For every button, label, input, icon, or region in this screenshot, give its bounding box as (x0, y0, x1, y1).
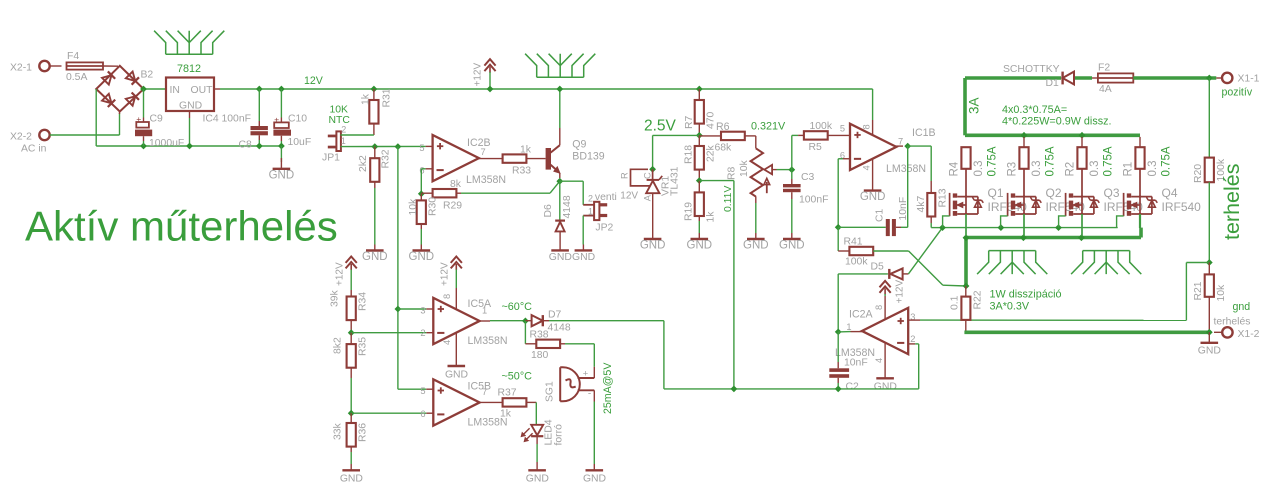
svg-text:1k: 1k (361, 93, 372, 105)
svg-text:IRF540: IRF540 (1162, 200, 1202, 214)
svg-text:2: 2 (910, 334, 915, 344)
svg-text:100k: 100k (810, 121, 833, 132)
svg-text:4*0.225W=0.9W dissz.: 4*0.225W=0.9W dissz. (1002, 116, 1112, 128)
svg-text:0.11V: 0.11V (723, 186, 734, 212)
buzzer SG1 (593, 367, 595, 378)
svg-text:4: 4 (862, 165, 872, 170)
svg-text:C: C (643, 172, 653, 179)
svg-text:0.75A: 0.75A (1103, 146, 1115, 176)
heatsink for IC4 (154, 31, 224, 55)
shunt reference VR1 TL431 (649, 166, 656, 173)
resistor R22 0.1 current sense (964, 239, 968, 286)
svg-text:pozitív: pozitív (1222, 87, 1253, 99)
svg-text:1: 1 (846, 322, 851, 332)
svg-text:0.75A: 0.75A (987, 146, 999, 176)
ground symbol under C3 (783, 238, 801, 240)
svg-text:R30: R30 (428, 197, 439, 216)
ground symbol under R19 (691, 238, 709, 240)
svg-text:10k: 10k (1216, 284, 1227, 302)
node R35 R36 junction (348, 410, 355, 417)
wire IC1B output node (895, 145, 903, 147)
svg-text:33k: 33k (333, 422, 344, 440)
wire R38 to buzzer (593, 344, 595, 367)
mosfet Q1 IRF540 (949, 193, 951, 216)
svg-text:X1-2: X1-2 (1238, 329, 1260, 340)
svg-text:+12V: +12V (440, 262, 451, 286)
fuse F2 4A (1098, 73, 1133, 82)
svg-text:4: 4 (874, 358, 884, 363)
svg-text:5: 5 (420, 386, 425, 396)
svg-text:0.1: 0.1 (950, 295, 961, 310)
svg-text:+: + (583, 369, 588, 379)
svg-text:4148: 4148 (562, 195, 573, 218)
terminal X2-2 (39, 130, 49, 140)
svg-text:4: 4 (442, 340, 452, 345)
svg-text:D7: D7 (548, 310, 562, 321)
bridge diode bottom-right (126, 93, 139, 106)
svg-text:2k2: 2k2 (358, 155, 369, 172)
svg-text:5: 5 (419, 143, 424, 153)
terminal X1-1 (1222, 73, 1232, 83)
svg-text:F4: F4 (67, 51, 79, 62)
capacitor C2 10nF (837, 332, 839, 362)
node 2.5V junction (696, 132, 703, 139)
resistor R34 39k (347, 297, 356, 321)
svg-text:3A: 3A (967, 97, 982, 114)
svg-text:1W disszipáció: 1W disszipáció (990, 289, 1062, 301)
led LED4 (531, 425, 543, 435)
svg-text:GND: GND (362, 251, 388, 263)
svg-text:10uF: 10uF (288, 137, 312, 148)
svg-text:IN: IN (170, 85, 180, 96)
svg-text:C2: C2 (846, 382, 860, 393)
svg-text:Q9: Q9 (572, 139, 586, 151)
wire R29 to Q9 emitter (461, 192, 550, 194)
ground symbol under R30 (420, 245, 422, 251)
resistor R3 0.3 (1023, 137, 1025, 147)
wire sense bypass to R21 top (1186, 262, 1209, 264)
wire NTC net to IC5B +in (398, 388, 426, 390)
svg-text:10nF: 10nF (844, 358, 868, 369)
resistor R29 8k (421, 192, 432, 194)
svg-text:8: 8 (874, 305, 884, 310)
svg-text:1k: 1k (500, 409, 512, 420)
svg-text:GND: GND (409, 251, 435, 263)
svg-text:GND: GND (179, 101, 202, 112)
svg-text:R34: R34 (358, 292, 369, 311)
svg-text:R7: R7 (684, 115, 695, 129)
svg-text:GND: GND (687, 240, 713, 252)
wire IC4 GND pin (189, 111, 191, 118)
capacitor C8 100nF (256, 86, 263, 93)
svg-text:3A*0.3V: 3A*0.3V (990, 301, 1030, 313)
svg-text:10k: 10k (739, 159, 750, 177)
svg-text:+12V: +12V (895, 280, 906, 304)
resistor R35 8k2 (350, 333, 352, 344)
svg-text:2: 2 (420, 328, 425, 338)
resistor R20 100k (1205, 158, 1214, 183)
terminal X1-2 (1222, 327, 1232, 337)
svg-text:TL431: TL431 (670, 166, 681, 196)
heatsink for Q3 Q4 (1071, 251, 1141, 275)
wire IC5A output (480, 320, 490, 322)
resistor R13 4k7 (927, 193, 935, 217)
ground symbol under C10 (280, 146, 282, 162)
resistor R37 1k (503, 398, 527, 406)
svg-text:25mA@5V: 25mA@5V (602, 362, 614, 414)
wire JP1 pin1 net NTC node (341, 145, 426, 147)
svg-text:+12V: +12V (473, 63, 484, 87)
wire divider to IC5A -in (351, 332, 426, 334)
wire IC1B -in pin6 (843, 158, 850, 160)
mosfet Q3 IRF540 (1065, 193, 1067, 216)
terminal X2-1 (39, 61, 49, 71)
wire IC5B output (480, 401, 503, 403)
svg-text:IC2A: IC2A (849, 309, 873, 321)
wire IC2B -in net (426, 168, 433, 170)
ground symbol under R32 (374, 245, 376, 251)
wire F4 to bridge (103, 65, 118, 67)
op-amp IC1B (850, 124, 896, 170)
svg-text:2: 2 (588, 194, 593, 204)
ground symbol under LED4 (528, 469, 546, 471)
trimmer R8 10k (751, 148, 763, 196)
ground symbol under IC2A (876, 377, 894, 379)
mosfet Q2 IRF540 (1007, 193, 1009, 216)
svg-text:OUT: OUT (191, 85, 214, 96)
fuse F4 (67, 62, 104, 69)
resistor R5 100k (798, 134, 804, 136)
wire 2.5V net to VR1 (653, 134, 700, 136)
svg-text:1: 1 (588, 206, 593, 216)
ground symbol under X1-2 (1208, 332, 1210, 342)
svg-text:IC1B: IC1B (912, 127, 936, 139)
capacitor C9 1000uF (143, 89, 145, 118)
svg-text:Aktív műterhelés: Aktív műterhelés (25, 203, 338, 250)
svg-text:7: 7 (898, 137, 903, 147)
svg-text:R36: R36 (358, 423, 369, 442)
svg-text:7: 7 (481, 147, 486, 157)
svg-text:C10: C10 (288, 114, 307, 125)
wire IC2A output node (851, 331, 862, 333)
svg-text:10K: 10K (330, 105, 349, 116)
wire R20 to R21 node (1208, 182, 1210, 262)
node IN junction (140, 86, 147, 93)
svg-text:1k: 1k (520, 145, 532, 156)
resistor R31 1k (371, 86, 378, 93)
wire bridge to 7812 IN (144, 88, 166, 90)
svg-text:39k: 39k (330, 289, 341, 307)
svg-text:4148: 4148 (548, 323, 571, 334)
svg-text:GND: GND (583, 474, 606, 485)
bridge rectifier B2 (96, 66, 143, 112)
svg-text:4A: 4A (1099, 84, 1112, 95)
svg-text:R18: R18 (684, 145, 695, 164)
supply +12V arrow R34 (346, 257, 357, 263)
resistor R33 1k (503, 154, 527, 162)
svg-text:IC5B: IC5B (468, 381, 492, 393)
svg-text:SG1: SG1 (545, 381, 556, 402)
wire X1-1 to R20 (1208, 78, 1210, 158)
wire IC2A +in pin3 sense line (908, 319, 920, 321)
svg-text:100k: 100k (845, 257, 868, 268)
svg-text:R13: R13 (938, 188, 949, 207)
svg-text:F2: F2 (1098, 63, 1110, 74)
svg-text:C9: C9 (150, 114, 164, 125)
svg-text:JP2: JP2 (595, 222, 613, 233)
svg-text:gnd: gnd (1233, 301, 1251, 313)
12V rail from IC4 OUT (214, 88, 220, 90)
svg-text:terhelés: terhelés (1214, 317, 1251, 328)
wire IC2B output (479, 158, 503, 160)
op-amp IC5B (433, 379, 479, 425)
svg-text:+: + (274, 114, 279, 124)
wire R8 bottom to ground (755, 196, 757, 203)
svg-text:A: A (642, 194, 652, 201)
svg-text:GND: GND (340, 474, 363, 485)
svg-text:GND: GND (526, 474, 549, 485)
svg-text:0.3: 0.3 (973, 161, 985, 177)
capacitor C10 10uF (278, 86, 285, 93)
svg-text:R4: R4 (949, 161, 961, 176)
wire Q4 source (1139, 214, 1141, 228)
svg-text:B2: B2 (141, 70, 154, 81)
voltage regulator IC4 7812 (166, 78, 214, 112)
op-amp IC5A (433, 298, 479, 344)
svg-text:BD139: BD139 (572, 151, 604, 163)
svg-text:R32: R32 (381, 149, 392, 168)
resistor R6 68k (699, 135, 721, 137)
svg-text:1000uF: 1000uF (149, 138, 184, 149)
svg-text:R20: R20 (1193, 164, 1204, 183)
svg-text:GND: GND (445, 370, 468, 381)
ground symbol under VR1 (644, 238, 662, 240)
wire D5 to gate bus diagonal (908, 228, 942, 274)
wire NTC net down to IC5 (397, 147, 399, 390)
svg-text:10k: 10k (408, 198, 419, 216)
svg-text:X2-1: X2-1 (10, 63, 32, 74)
svg-text:forró: forró (554, 424, 565, 446)
ground symbol under R36 (342, 469, 360, 471)
wire buzzer minus to ground (593, 390, 595, 401)
op-amp IC2A (862, 308, 908, 354)
heatsink for Q1 Q2 (977, 251, 1047, 275)
svg-text:0.321V: 0.321V (751, 121, 786, 133)
wire Q1 gate (943, 216, 950, 228)
svg-text:2: 2 (341, 124, 346, 134)
wire fan net to JP2 (560, 180, 583, 182)
ground bus thick (964, 330, 1209, 334)
wire IC2A V- pin4 to ground (884, 343, 886, 377)
op-amp IC2B (433, 135, 479, 181)
ground symbol under SG1 (586, 469, 604, 471)
svg-text:R8: R8 (727, 166, 738, 180)
bridge diode bottom-left (102, 94, 115, 107)
svg-text:D6: D6 (543, 204, 554, 218)
svg-text:8k: 8k (450, 179, 462, 190)
svg-text:0.75A: 0.75A (1161, 146, 1173, 176)
wire IC2A -in pin2 (908, 343, 915, 345)
wire Q3 gate (1059, 216, 1066, 228)
ground symbol under IC1B (864, 189, 882, 191)
svg-text:R21: R21 (1193, 281, 1204, 300)
transistor Q9 BD139 (546, 148, 551, 170)
svg-text:8: 8 (862, 124, 872, 129)
svg-text:R19: R19 (684, 202, 695, 221)
wire Q2 gate (1001, 216, 1008, 228)
svg-text:Q3: Q3 (1104, 186, 1120, 200)
svg-text:venti: venti (595, 192, 617, 203)
svg-text:R: R (620, 172, 630, 179)
svg-text:1k: 1k (706, 211, 717, 223)
node fan net junction (556, 178, 563, 185)
svg-text:0.3: 0.3 (1031, 161, 1043, 177)
jumper JP2 (583, 204, 594, 206)
svg-text:8: 8 (442, 294, 452, 299)
svg-text:AC in: AC in (21, 144, 47, 155)
svg-text:IC5A: IC5A (468, 298, 492, 310)
wire R6 to R8 (745, 135, 756, 137)
svg-text:R3: R3 (1007, 162, 1019, 177)
svg-text:7812: 7812 (177, 63, 201, 75)
wire bridge left to gnd rail (95, 89, 97, 146)
drain bus thick (963, 78, 967, 135)
svg-text:D5: D5 (871, 262, 885, 273)
svg-text:GND: GND (743, 240, 769, 252)
node gnd junction C9 (140, 143, 147, 150)
diode D6 4148 (559, 181, 561, 219)
wire Q2 source (1023, 214, 1025, 236)
ground symbol under IC5A (448, 365, 466, 367)
svg-text:+12V: +12V (335, 262, 346, 286)
svg-text:0.75A: 0.75A (1045, 146, 1057, 176)
svg-text:0.5A: 0.5A (66, 72, 87, 83)
source bus thick (966, 236, 1141, 240)
svg-text:GND: GND (549, 252, 572, 263)
svg-text:GND: GND (779, 240, 805, 252)
svg-text:C3: C3 (801, 172, 815, 183)
wire D1 to F2 (1075, 76, 1092, 80)
ground symbol under R8 (747, 238, 765, 240)
svg-text:R6: R6 (716, 121, 730, 133)
wire IC2B +in stub (426, 145, 433, 147)
wire NTC net to IC5A +in (395, 306, 402, 313)
wire LED4 to ground (536, 436, 538, 444)
wire setpoint rail (664, 388, 919, 390)
ground symbol under D6 (551, 249, 569, 251)
node 12V to R7 junction (696, 86, 703, 93)
wire R13 to gate bus (930, 223, 932, 228)
gnd rail (96, 145, 281, 147)
svg-text:8k2: 8k2 (333, 337, 344, 354)
wire wiper to R5 (791, 135, 793, 169)
wire X2-1 to F4 (50, 65, 62, 67)
wire X2-2 to bridge bottom (50, 134, 120, 136)
svg-text:LM358N: LM358N (468, 335, 508, 347)
gate bus (943, 227, 1118, 229)
svg-text:terhelés: terhelés (1220, 164, 1244, 241)
svg-text:3: 3 (420, 306, 425, 316)
svg-text:LM358N: LM358N (466, 174, 506, 186)
svg-text:R41: R41 (844, 237, 863, 248)
svg-text:R33: R33 (512, 166, 531, 177)
svg-text:JP1: JP1 (322, 153, 340, 164)
svg-text:IC2B: IC2B (467, 137, 491, 149)
wire IC5A V- pin4 to ground (455, 333, 457, 366)
resistor R41 100k (838, 250, 849, 252)
svg-text:C1: C1 (875, 208, 886, 222)
node R34 R35 junction (348, 329, 355, 336)
svg-text:5: 5 (840, 124, 845, 134)
heatsink for Q9 (525, 54, 595, 77)
svg-text:7: 7 (482, 387, 487, 397)
wire IC1B V+ pin8 (872, 89, 874, 120)
svg-text:GND: GND (860, 191, 886, 203)
svg-text:X1-1: X1-1 (1238, 74, 1260, 85)
wire IC1B out to R13 (908, 145, 932, 147)
diode D5 gate clamp (837, 274, 839, 332)
resistor R30 10k (420, 194, 422, 201)
svg-text:R38: R38 (530, 330, 549, 341)
resistor R21 10k (1208, 263, 1210, 275)
svg-text:0.3: 0.3 (1147, 161, 1159, 177)
svg-text:GND: GND (269, 169, 295, 181)
svg-text:R5: R5 (809, 142, 823, 153)
resistor R1 0.3 (1139, 137, 1141, 147)
resistor R7 470 (698, 89, 700, 100)
capacitor C1 10nF (838, 226, 886, 228)
supply +12V arrow IC5A (451, 257, 462, 263)
svg-text:100nF: 100nF (222, 114, 251, 125)
svg-text:NTC: NTC (329, 115, 351, 126)
svg-text:Q2: Q2 (1046, 186, 1062, 200)
jumper JP1 (336, 131, 341, 151)
wire R37 to LED4 (535, 402, 537, 424)
resistor R18 22k (698, 135, 700, 146)
svg-text:Q1: Q1 (988, 186, 1004, 200)
wire 0.11V net (699, 180, 734, 182)
svg-text:4k7: 4k7 (916, 196, 927, 213)
resistor R36 33k (350, 413, 352, 423)
svg-text:R2: R2 (1065, 162, 1077, 177)
resistor R32 2k2 (374, 147, 376, 159)
svg-text:+: + (136, 114, 141, 124)
wire Q3 source (1081, 214, 1083, 236)
svg-text:0.3: 0.3 (1089, 161, 1101, 177)
svg-text:12V: 12V (620, 190, 638, 201)
supply +12V arrow IC2A (880, 281, 891, 287)
svg-text:GND: GND (572, 252, 595, 263)
bridge diode top-left (102, 71, 115, 84)
wire Q9 collector to 12V (559, 128, 561, 145)
svg-text:R37: R37 (498, 388, 517, 399)
wire R8 wiper (772, 169, 776, 171)
svg-text:X2-2: X2-2 (10, 132, 32, 143)
svg-text:Q4: Q4 (1162, 186, 1178, 200)
svg-text:C8: C8 (239, 140, 253, 151)
bridge diode top-right (126, 71, 139, 84)
svg-text:R1: R1 (1123, 162, 1135, 177)
node gnd junction IC4 (186, 143, 193, 150)
wire F2 to X1-1 (1133, 76, 1216, 80)
wire IC1B V- pin4 to ground (872, 158, 874, 190)
svg-text:1: 1 (482, 306, 487, 316)
wire JP2 pin1 to ground (582, 216, 584, 245)
capacitor C3 100nF (791, 170, 793, 179)
svg-text:IC4: IC4 (203, 114, 219, 125)
svg-text:100nF: 100nF (799, 195, 828, 206)
svg-text:GND: GND (874, 382, 897, 393)
